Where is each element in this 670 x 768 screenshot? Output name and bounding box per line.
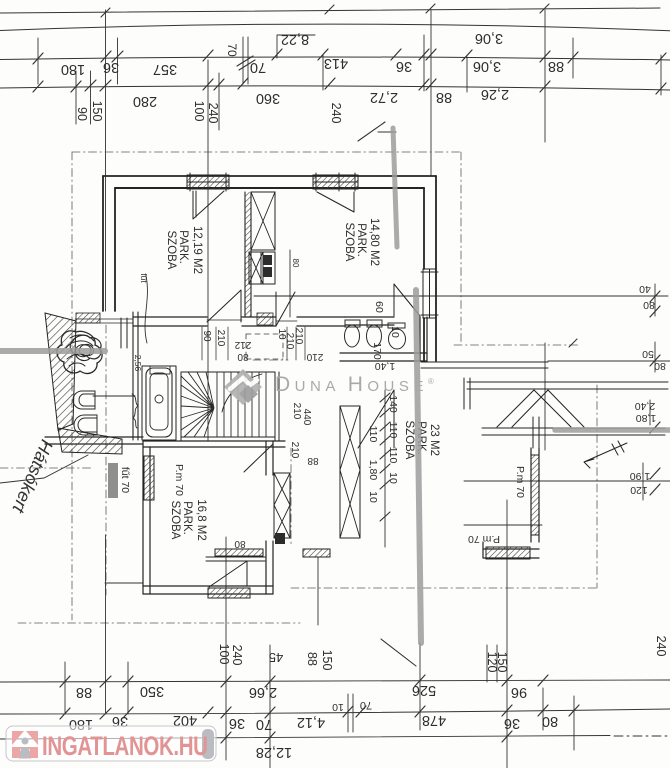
svg-text:110: 110 [367, 426, 379, 443]
exterior wall east [424, 176, 436, 361]
garden bush scribble [57, 331, 102, 373]
svg-text:150: 150 [495, 652, 509, 673]
svg-text:88: 88 [305, 652, 319, 666]
stair details [181, 372, 266, 437]
svg-text:88: 88 [307, 455, 319, 466]
svg-text:80: 80 [237, 351, 249, 362]
svg-text:Hátsókert: Hátsókert [8, 437, 57, 517]
svg-text:DUNA HOUSE®: DUNA HOUSE® [275, 373, 438, 396]
svg-text:1,80: 1,80 [367, 460, 379, 481]
svg-text:4,12: 4,12 [297, 714, 325, 730]
svg-text:210: 210 [306, 351, 323, 362]
top dimension lines [0, 4, 670, 441]
grey scan fold streaks [0, 128, 670, 643]
svg-text:P.m 70: P.m 70 [514, 466, 526, 498]
svg-text:SZOBA: SZOBA [169, 501, 181, 540]
svg-text:88: 88 [76, 684, 92, 700]
svg-text:fűt: fűt [139, 273, 149, 283]
svg-text:PARK.: PARK. [355, 223, 367, 257]
svg-text:357: 357 [153, 61, 177, 77]
svg-text:14,80 M2: 14,80 M2 [368, 218, 380, 266]
room labels (vertical) [165, 218, 440, 541]
top dim line 1 [0, 24, 670, 31]
svg-text:80: 80 [643, 299, 655, 311]
svg-text:100: 100 [192, 101, 206, 122]
hooks on line0 [101, 4, 549, 17]
svg-text:PARK.: PARK. [177, 230, 189, 264]
bath labels [371, 301, 401, 372]
svg-text:36: 36 [504, 715, 520, 731]
svg-text:3,06: 3,06 [475, 30, 503, 46]
room23 dim chain labels [119, 355, 526, 545]
svg-text:240: 240 [654, 636, 668, 657]
svg-text:1,90: 1,90 [630, 470, 651, 482]
radiator grey bars [108, 463, 118, 498]
right chain ticks [650, 291, 660, 495]
svg-text:140: 140 [387, 395, 399, 413]
middle wall H1 [133, 317, 207, 326]
room23 top wall from bath [421, 362, 548, 368]
svg-text:36: 36 [103, 59, 119, 75]
svg-text:36: 36 [396, 58, 412, 74]
tub walls [142, 366, 176, 440]
right terrace double lines [467, 382, 668, 389]
svg-text:8,22: 8,22 [281, 31, 309, 47]
top dim line 2 [0, 57, 670, 60]
top dim line 0 [0, 8, 660, 13]
svg-text:50: 50 [642, 348, 654, 360]
svg-text:110: 110 [387, 447, 399, 464]
svg-text:12,28: 12,28 [256, 744, 292, 760]
svg-text:240: 240 [230, 645, 244, 666]
svg-text:96: 96 [511, 684, 527, 700]
svg-text:70: 70 [256, 716, 272, 732]
hall small labels (vertical) [201, 328, 323, 549]
svg-text:88: 88 [436, 89, 452, 105]
ingatlanok.hu plaque [6, 726, 216, 762]
svg-text:120: 120 [630, 484, 648, 496]
svg-text:100: 100 [217, 644, 231, 665]
stair box [181, 372, 279, 441]
svg-text:SZOBA: SZOBA [403, 421, 415, 460]
svg-text:10: 10 [389, 326, 401, 338]
svg-text:240: 240 [206, 103, 220, 124]
svg-text:440: 440 [301, 409, 312, 426]
pier B [340, 406, 360, 538]
svg-text:2,56: 2,56 [133, 355, 143, 372]
svg-text:240: 240 [329, 103, 343, 124]
svg-text:413: 413 [324, 55, 348, 71]
svg-text:70: 70 [360, 699, 372, 711]
svg-text:80: 80 [291, 259, 300, 268]
svg-text:150: 150 [90, 101, 104, 122]
svg-text:16,8 M2: 16,8 M2 [195, 499, 207, 541]
svg-text:23 M2: 23 M2 [428, 424, 440, 456]
right chain labels [630, 283, 666, 496]
svg-text:70: 70 [225, 43, 239, 57]
room16 walls [143, 441, 285, 447]
svg-text:150: 150 [320, 650, 334, 671]
svg-text:210: 210 [289, 442, 300, 459]
svg-text:2,66: 2,66 [249, 684, 277, 700]
pink house icon [12, 731, 38, 759]
svg-text:36: 36 [229, 715, 245, 731]
svg-text:1,80: 1,80 [636, 412, 657, 424]
svg-text:210: 210 [215, 330, 226, 347]
svg-text:PARK.: PARK. [181, 501, 193, 535]
wall W1 + chimney between top rooms [245, 192, 251, 317]
svg-text:10: 10 [367, 491, 379, 503]
bottom ticks line B3 [221, 731, 512, 743]
north arrow [584, 441, 627, 468]
svg-text:12,19 M2: 12,19 M2 [191, 226, 203, 274]
svg-text:SZOBA: SZOBA [165, 231, 177, 270]
room23 right wall + caps [531, 448, 539, 542]
watermarks [6, 369, 438, 762]
room23 bottom wall [483, 542, 539, 558]
svg-text:2,26: 2,26 [481, 86, 509, 102]
plot boundary dash-dot [0, 152, 597, 623]
windows / lintels [144, 173, 539, 598]
svg-text:60: 60 [373, 301, 385, 313]
svg-text:P.m 70: P.m 70 [468, 533, 500, 545]
Duna House diamond logo watermark [224, 369, 262, 405]
svg-text:212: 212 [234, 339, 251, 350]
room14 bottom line [254, 295, 436, 297]
top dim line 3 [0, 86, 670, 90]
svg-text:80: 80 [654, 360, 666, 372]
svg-text:40: 40 [639, 283, 651, 295]
svg-text:210: 210 [293, 328, 304, 345]
svg-text:280: 280 [133, 93, 157, 109]
exterior wall north [103, 175, 436, 177]
hatched terrace band [45, 313, 76, 430]
svg-text:210: 210 [291, 403, 302, 420]
ticks on line2 [33, 49, 666, 64]
svg-text:fűt 70: fűt 70 [119, 467, 131, 493]
svg-text:45: 45 [269, 650, 283, 665]
svg-text:2,72: 2,72 [370, 89, 398, 105]
svg-text:80: 80 [542, 713, 558, 729]
bottom ticks line B2 [60, 705, 579, 719]
svg-text:110: 110 [387, 422, 399, 439]
svg-text:350: 350 [140, 683, 164, 699]
plan walls [45, 173, 668, 598]
garage walls [133, 312, 138, 440]
svg-text:3,06: 3,06 [473, 58, 501, 74]
gable zigzag [497, 390, 584, 427]
svg-text:478: 478 [422, 712, 446, 728]
bathtub [146, 368, 172, 437]
svg-text:80: 80 [234, 538, 246, 549]
door swings [193, 191, 224, 219]
svg-text:90: 90 [201, 330, 212, 342]
bathroom toilet, bidet, washbasin [345, 325, 360, 347]
bath walls [345, 317, 394, 325]
svg-text:2,40: 2,40 [635, 400, 656, 412]
fixtures [57, 320, 406, 437]
svg-text:70: 70 [250, 59, 266, 75]
svg-text:10: 10 [332, 701, 344, 713]
exterior wall west [103, 176, 115, 311]
svg-text:526: 526 [412, 682, 436, 698]
svg-text:90: 90 [75, 107, 89, 121]
svg-text:170: 170 [371, 342, 383, 360]
ticks on line3 [33, 78, 666, 94]
svg-text:88: 88 [548, 58, 564, 74]
svg-text:10: 10 [387, 472, 399, 484]
pier A [274, 473, 290, 538]
kazan scribble [132, 394, 138, 428]
garage U fixtures [73, 391, 95, 409]
svg-text:360: 360 [256, 90, 280, 106]
svg-text:INGATLANOK.HU: INGATLANOK.HU [42, 731, 208, 761]
bottom ticks line B1 [60, 675, 548, 687]
svg-text:P.m 70: P.m 70 [173, 464, 185, 496]
svg-text:SZOBA: SZOBA [343, 223, 355, 262]
svg-text:180: 180 [61, 61, 85, 77]
svg-text:1,40: 1,40 [375, 360, 396, 372]
